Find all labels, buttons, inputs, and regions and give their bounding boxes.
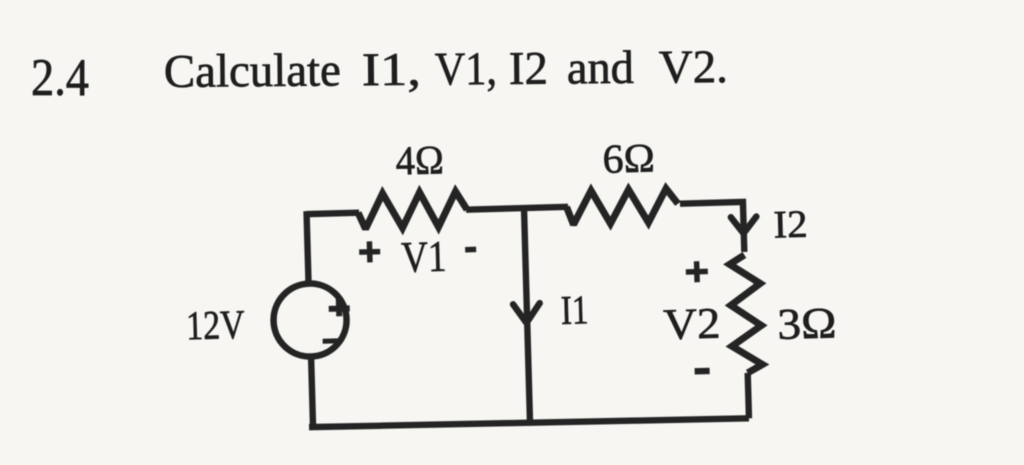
wire bottom horizontal xyxy=(309,415,749,431)
svg-text:12V: 12V xyxy=(186,301,246,349)
svg-text:6Ω: 6Ω xyxy=(602,134,655,181)
resistor R3 3ohm xyxy=(729,254,762,373)
svg-text:I1,: I1, xyxy=(362,44,421,97)
svg-text:I2: I2 xyxy=(773,203,808,247)
voltage source V 12V xyxy=(273,283,348,358)
resistor R2 6ohm xyxy=(566,188,678,225)
wire left vertical upper xyxy=(307,211,309,285)
wire right vertical lower xyxy=(748,373,749,418)
wire top-middle xyxy=(466,207,568,210)
arrow I2 current xyxy=(731,217,757,234)
svg-text:2.4: 2.4 xyxy=(31,49,89,107)
wire middle vertical xyxy=(524,208,530,424)
plus sign inside source xyxy=(328,298,349,316)
wire left vertical lower xyxy=(311,355,313,428)
svg-text:I1: I1 xyxy=(560,286,589,333)
svg-text:V2.: V2. xyxy=(659,41,728,94)
minus sign inside source xyxy=(323,338,340,343)
svg-text:4Ω: 4Ω xyxy=(395,136,444,183)
svg-text:V1: V1 xyxy=(401,232,447,282)
svg-text:V2: V2 xyxy=(663,299,721,350)
title: Calculate I1, V1, I2 and V2. xyxy=(164,41,728,98)
wire top-right horizontal xyxy=(680,202,744,254)
wire top-left horizontal xyxy=(307,213,359,214)
svg-text:I2: I2 xyxy=(509,43,548,95)
svg-text:V1,: V1, xyxy=(435,43,497,96)
minus sign V1 xyxy=(465,247,476,253)
plus sign V2 xyxy=(686,261,709,283)
arrow I1 current xyxy=(513,303,540,323)
svg-text:Calculate: Calculate xyxy=(164,44,341,98)
svg-text:3Ω: 3Ω xyxy=(777,298,837,349)
svg-text:and: and xyxy=(567,42,634,95)
minus sign V2 xyxy=(695,368,710,375)
plus sign V1 xyxy=(359,241,381,263)
resistor R1 4ohm xyxy=(358,191,468,229)
